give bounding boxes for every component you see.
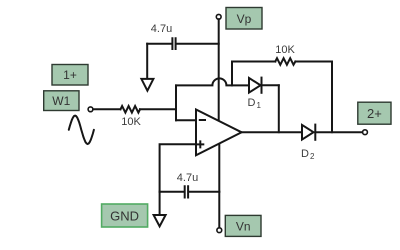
wire D1 branch down to op-amp output: [278, 85, 280, 132]
terminal W1: [88, 107, 93, 112]
node label W1: [44, 91, 79, 111]
wire to op-amp minus input: [176, 119, 196, 121]
svg-text:Vp: Vp: [237, 12, 252, 26]
svg-text:GND: GND: [110, 209, 139, 224]
svg-text:4.7u: 4.7u: [151, 23, 172, 35]
terminal Vn: [217, 228, 222, 233]
minus input marking: [200, 119, 205, 121]
node label 1+: [52, 65, 88, 86]
svg-text:1: 1: [257, 101, 262, 110]
svg-text:10K: 10K: [275, 44, 295, 56]
node label Vn: [225, 215, 261, 236]
node label Vp: [226, 8, 262, 30]
wire resistor to inverting node: [140, 108, 176, 110]
svg-text:10K: 10K: [121, 116, 141, 128]
svg-text:4.7u: 4.7u: [177, 172, 198, 184]
wire D1 cathode to corner: [262, 84, 279, 86]
wire feedback top with hop over supply: [176, 78, 249, 85]
plus input marking: [197, 141, 203, 147]
wire op-amp output to D2: [242, 131, 302, 133]
node inverting input vertical: [175, 85, 177, 120]
svg-text:2: 2: [310, 152, 315, 161]
svg-text:2+: 2+: [367, 106, 382, 121]
svg-text:1+: 1+: [63, 68, 77, 82]
ground symbol (top): [141, 79, 153, 91]
svg-text:D: D: [301, 148, 309, 160]
wire feedback down to output node: [331, 62, 333, 133]
source W1 sine symbol: [69, 116, 94, 144]
wire W1 terminal to resistor: [93, 108, 121, 110]
wire op-amp plus input leg: [160, 144, 196, 191]
wire up to feedback resistor: [231, 62, 233, 86]
wire D2 cathode to output terminal: [315, 131, 362, 133]
wire feedback right segment: [295, 61, 332, 63]
svg-text:Vn: Vn: [236, 220, 251, 234]
node label GND: [102, 204, 148, 227]
diode D2: [302, 125, 315, 140]
svg-text:D: D: [248, 97, 256, 109]
wire C1 to ground: [146, 44, 148, 79]
diode D1: [249, 78, 262, 93]
capacitor C2 plates: [185, 186, 188, 197]
capacitor C1 4.7u wires: [147, 43, 219, 45]
wire Vn supply from op-amp down: [218, 145, 220, 228]
ground symbol (bottom): [154, 215, 166, 226]
wire feedback left segment: [232, 61, 275, 63]
wire C2 left leg to ground: [159, 192, 161, 215]
svg-text:W1: W1: [52, 94, 70, 108]
capacitor C2 4.7u wires: [160, 191, 220, 193]
terminal Vp: [216, 14, 221, 19]
capacitor C1 plates: [172, 38, 175, 49]
resistor R1 10K: [121, 106, 141, 113]
op-amp U1: [196, 110, 242, 156]
node label 2+: [358, 102, 391, 124]
terminal 2+: [363, 130, 368, 135]
resistor R2 10K: [275, 58, 295, 65]
wire Vp supply down to op-amp: [218, 19, 220, 119]
